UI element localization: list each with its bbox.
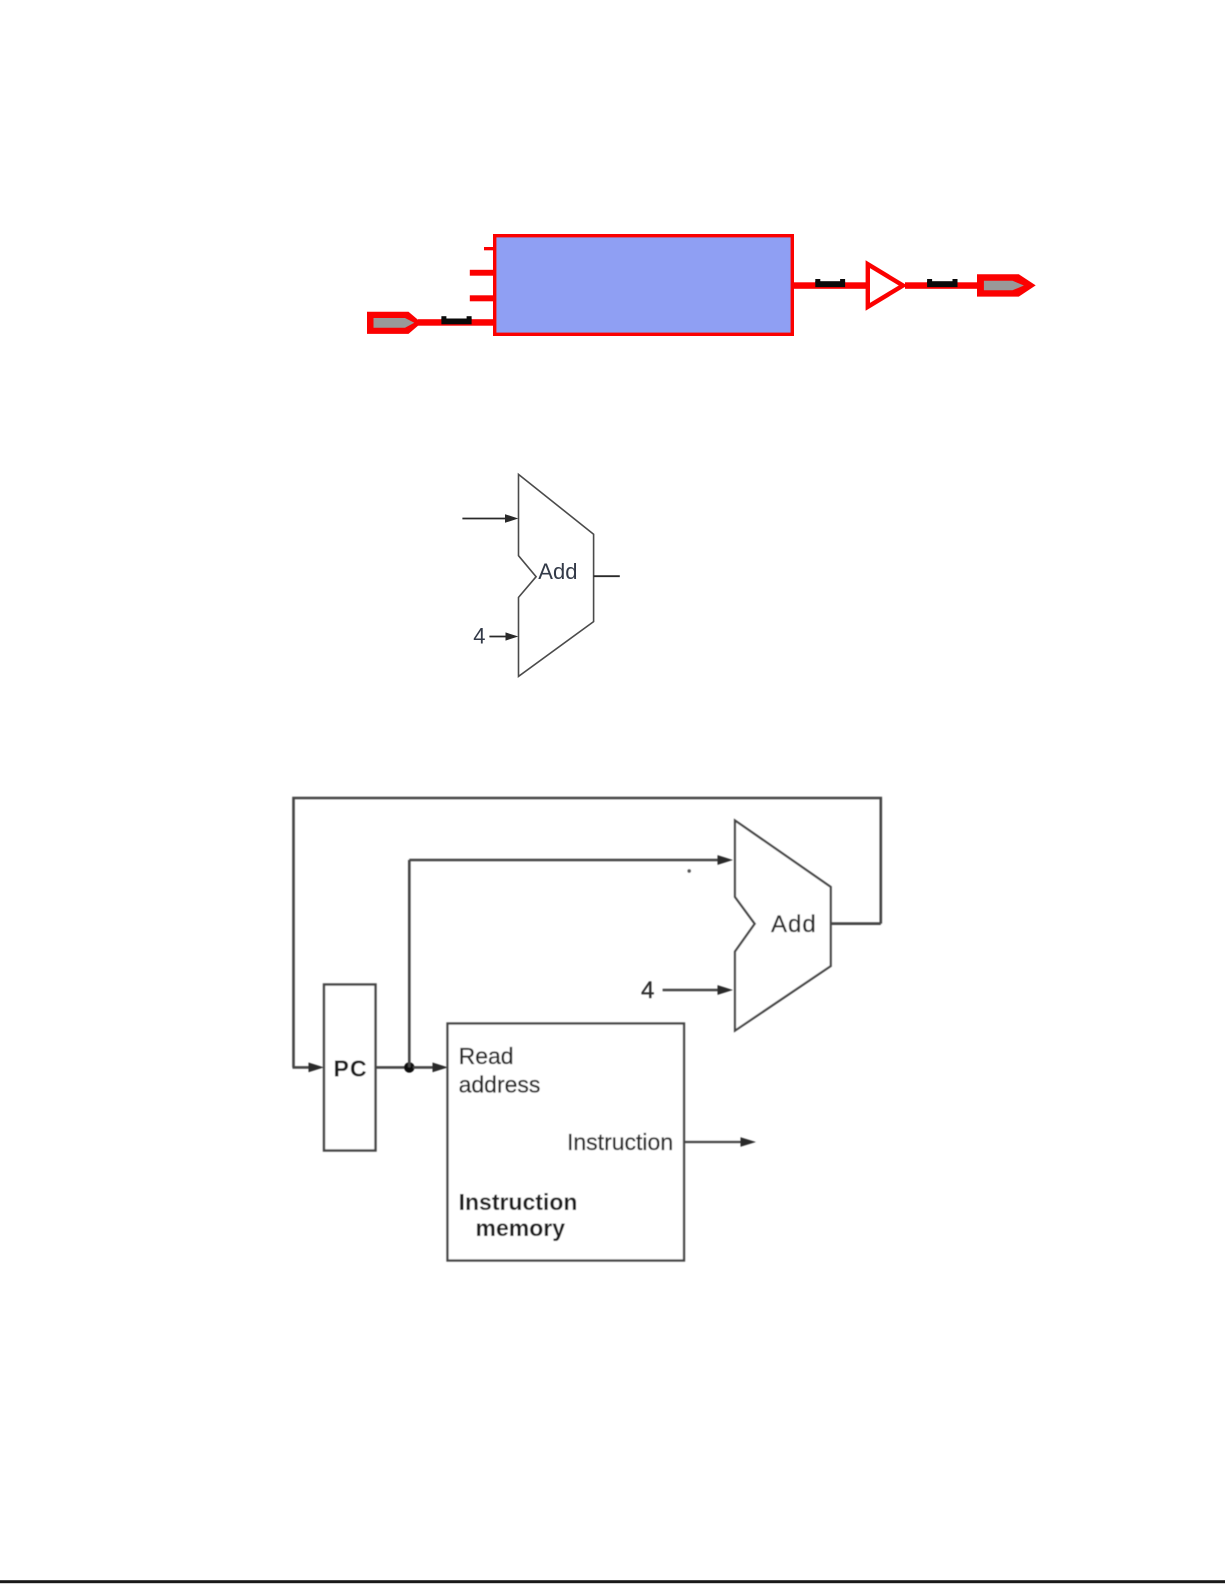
instruction memory box (448, 1024, 685, 1261)
input arrow A1 bottom (489, 632, 518, 640)
input arrow A1 top (462, 514, 518, 523)
svg-text:Add: Add (771, 911, 817, 938)
arrow node to read address (413, 1063, 448, 1073)
svg-text:4: 4 (641, 977, 654, 1004)
pin stub 1 (484, 247, 494, 250)
A2 output wire (831, 922, 881, 925)
output arrow Instruction (685, 1137, 756, 1146)
svg-text:memory: memory (476, 1215, 566, 1241)
svg-text:Instruction: Instruction (567, 1129, 673, 1155)
footer rule (0, 1580, 1225, 1583)
net segment marker (black) (815, 279, 845, 287)
wire block to buffer (792, 282, 867, 289)
net segment marker (black) (441, 316, 471, 324)
output port P2 (977, 274, 1036, 296)
arrow into PC (293, 1063, 325, 1073)
output stub A1 (594, 575, 620, 577)
register PC box (324, 985, 376, 1151)
label Read address (459, 1043, 541, 1098)
net segment marker (black) (927, 279, 957, 287)
pin stub 3 (470, 295, 494, 301)
svg-text:4: 4 (473, 623, 485, 648)
label Instruction memory (title) (459, 1189, 578, 1241)
speck (688, 869, 691, 872)
svg-text:PC: PC (334, 1055, 368, 1081)
node vertical wire (408, 860, 411, 1067)
pin stub 2 (470, 270, 494, 276)
wire buffer to output port (905, 282, 978, 289)
wire input net (418, 319, 494, 326)
block U1 (blue box) (493, 234, 794, 336)
wire PC to node (376, 1066, 410, 1069)
wire node to adder A2 (409, 855, 733, 865)
junction node (404, 1062, 414, 1072)
svg-text:Instruction: Instruction (459, 1189, 578, 1215)
adder A2 shape (735, 821, 831, 1031)
svg-text:address: address (459, 1072, 541, 1098)
input port P1 (367, 312, 422, 334)
adder A1 shape (519, 474, 594, 676)
svg-text:Read: Read (459, 1043, 514, 1069)
buffer U2 (triangle) (868, 264, 903, 307)
svg-text:Add: Add (538, 559, 577, 584)
feedback loop wire (294, 798, 881, 1067)
arrow 4 into A2 (663, 985, 733, 995)
